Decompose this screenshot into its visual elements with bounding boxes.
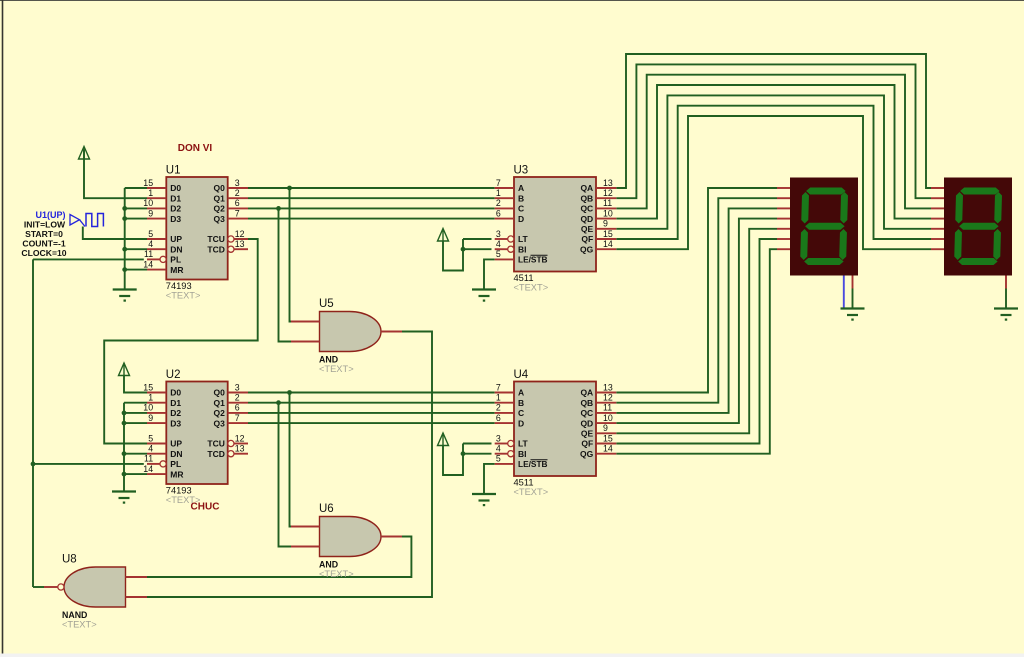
svg-text:Q1: Q1 — [214, 193, 226, 203]
power flag VCC (U1) — [79, 147, 90, 160]
svg-text:4: 4 — [496, 239, 501, 249]
svg-text:6: 6 — [496, 413, 501, 423]
svg-text:QE: QE — [581, 429, 594, 439]
svg-text:2: 2 — [235, 188, 240, 198]
U3 pin 11 (QC) — [580, 198, 616, 213]
U3 pin 3 (LT) — [495, 229, 529, 244]
junction dot U1 Q0 branch — [287, 186, 292, 191]
ground symbol under DS2 — [994, 309, 1018, 321]
svg-text:4: 4 — [148, 239, 153, 249]
U1 pin 1 (D1) — [147, 188, 181, 203]
svg-text:U2: U2 — [166, 369, 181, 381]
svg-text:3: 3 — [496, 433, 501, 443]
junction dot U1 rail at D2 — [122, 206, 127, 211]
U5 output pin stub — [381, 331, 402, 333]
svg-text:UP: UP — [170, 234, 182, 244]
U3 pin 10 (QD) — [580, 208, 616, 223]
svg-text:UP: UP — [170, 439, 182, 449]
svg-text:TCU: TCU — [207, 234, 224, 244]
svg-text:QC: QC — [580, 204, 593, 214]
svg-text:2: 2 — [496, 403, 501, 413]
wire left rail to U2 PL — [33, 463, 144, 465]
gate U6 (AND) body — [320, 517, 382, 557]
wire U3 QA to DS2 segment a — [616, 54, 931, 188]
svg-text:D: D — [518, 418, 524, 428]
wire VCC arrow to U1 D1 — [84, 150, 147, 198]
U1 pin 7 (Q3) — [214, 208, 248, 223]
U1 pin 3 (Q0) — [214, 178, 248, 193]
svg-text:14: 14 — [143, 259, 153, 269]
U2 pin 3 (Q0) — [214, 382, 248, 397]
svg-text:Q2: Q2 — [214, 408, 226, 418]
junction dot U4 BI — [461, 451, 466, 456]
window strip below paper — [0, 654, 1024, 657]
svg-text:13: 13 — [603, 178, 613, 188]
U4 pin 4 (BI) — [495, 444, 527, 459]
U4 pin 15 (QF) — [581, 433, 616, 448]
wire VCC arrow to U2 D0 — [124, 376, 147, 393]
svg-text:DON VI: DON VI — [178, 143, 213, 154]
wire clock source to U1 UP — [83, 227, 147, 240]
svg-text:5: 5 — [496, 249, 501, 259]
wire U2 Q1 to U4 B — [248, 402, 495, 404]
svg-text:Q1: Q1 — [214, 398, 226, 408]
wire DS2 ground pin — [1005, 289, 1007, 309]
IC U3 (4511) body — [514, 177, 596, 272]
wire VCC arrow to U3 BI/LT — [443, 239, 463, 271]
junction dot U1 Q2 branch — [276, 206, 281, 211]
svg-text:QF: QF — [581, 234, 593, 244]
U1 pin 10 (D2) — [143, 198, 181, 213]
wire U1 D2 to ground rail — [125, 207, 147, 209]
ground symbol under U2 — [112, 492, 136, 504]
U4 pin 10 (QD) — [580, 413, 616, 428]
svg-text:AND: AND — [319, 560, 338, 570]
svg-text:U6: U6 — [319, 503, 334, 515]
U1 pin 15 (D0) — [143, 178, 181, 193]
svg-text:DN: DN — [170, 449, 182, 459]
svg-text:D2: D2 — [170, 204, 181, 214]
svg-text:START=0: START=0 — [25, 229, 63, 239]
svg-text:Q2: Q2 — [214, 204, 226, 214]
svg-text:AND: AND — [319, 355, 338, 365]
U2 pin 4 (DN) — [147, 444, 183, 459]
wire left rail to U1 PL — [33, 258, 144, 260]
U2 pin 2 (Q1) — [214, 393, 248, 408]
U6 input pin stubs — [291, 527, 320, 547]
svg-text:11: 11 — [603, 198, 612, 208]
svg-text:12: 12 — [235, 433, 245, 443]
svg-text:<TEXT>: <TEXT> — [319, 364, 354, 374]
wire U2 D1 to ground rail — [124, 402, 147, 404]
svg-text:13: 13 — [235, 239, 245, 249]
U1 pin 5 (UP) — [147, 229, 182, 244]
svg-text:15: 15 — [603, 433, 613, 443]
U4 pin 14 (QG) — [580, 444, 616, 459]
svg-text:LT: LT — [518, 439, 529, 449]
wire U3 QB to DS2 segment b — [616, 64, 931, 198]
junction dot U2 rail at D2 — [122, 411, 127, 416]
svg-text:3: 3 — [235, 382, 240, 392]
U2 pin 5 (UP) — [147, 433, 182, 448]
wire U8 output to left rail — [33, 586, 44, 588]
svg-text:B: B — [518, 398, 524, 408]
IC U1 (74193) body — [166, 177, 227, 280]
svg-text:13: 13 — [603, 382, 613, 392]
U1 pin 12 (TCU) — [207, 229, 248, 244]
wire U1 Q2 to U3 C — [248, 207, 495, 209]
svg-text:5: 5 — [496, 454, 501, 464]
svg-text:9: 9 — [603, 219, 608, 229]
power flag VCC (U4) — [438, 433, 449, 446]
U2 pin 9 (D3) — [147, 413, 181, 428]
svg-text:<TEXT>: <TEXT> — [514, 283, 549, 293]
U4 pin 13 (QA) — [580, 382, 616, 397]
svg-text:13: 13 — [235, 444, 245, 454]
svg-text:MR: MR — [170, 469, 183, 479]
wire U4 QG to DS1 segment g — [616, 249, 777, 454]
svg-text:<TEXT>: <TEXT> — [62, 620, 97, 630]
U3 pin 7 (A) — [495, 178, 524, 193]
svg-text:QD: QD — [580, 418, 593, 428]
svg-text:5: 5 — [148, 433, 153, 443]
U2 pin 7 (Q3) — [214, 413, 248, 428]
U3 pin 5 (LE/STB) — [495, 249, 548, 264]
junction dot U3 BI — [461, 247, 466, 252]
U3 pin 4 (BI) — [495, 239, 527, 254]
wire U1 D3 to ground rail — [125, 218, 147, 220]
U4 pin 9 (QE) — [581, 423, 616, 438]
U8 input pin stubs — [126, 577, 148, 597]
U3 pin 9 (QE) — [581, 219, 616, 234]
junction dot U2 rail at DN — [122, 451, 127, 456]
DS2 segment pins a-g — [931, 188, 944, 249]
wire U3 QF to DS2 segment f — [616, 106, 931, 239]
svg-text:10: 10 — [603, 208, 613, 218]
svg-text:D: D — [518, 214, 524, 224]
svg-text:10: 10 — [143, 198, 153, 208]
svg-text:4511: 4511 — [514, 478, 534, 488]
wire U1 Q3 to U3 D — [248, 218, 495, 220]
svg-text:DN: DN — [170, 244, 182, 254]
U4 pin 7 (A) — [495, 382, 524, 397]
U3 pin 12 (QB) — [580, 188, 616, 203]
svg-text:QC: QC — [580, 408, 593, 418]
svg-text:CLOCK=10: CLOCK=10 — [21, 248, 66, 258]
U1 pin 11 (PL) — [144, 249, 181, 264]
wire U3 QG to DS2 segment g — [616, 116, 931, 249]
IC U2 (74193) body — [166, 382, 227, 485]
wire U1 TCU to U2 UP cascade — [104, 239, 258, 444]
wire U3 LE/STB to ground — [484, 259, 495, 289]
svg-text:MR: MR — [170, 265, 183, 275]
U4 pin 12 (QB) — [580, 393, 616, 408]
gate U8 (NAND) body, mirrored — [64, 567, 126, 607]
wire U3 QE to DS2 segment e — [616, 95, 931, 228]
svg-text:74193: 74193 — [166, 486, 192, 496]
U2 pin 11 (PL) — [144, 454, 181, 469]
IC U4 (4511) body — [514, 382, 596, 477]
svg-text:11: 11 — [144, 249, 153, 259]
junction dot U2 Q1 branch — [276, 400, 281, 405]
svg-text:12: 12 — [603, 188, 613, 198]
U6 output pin stub — [381, 536, 402, 538]
svg-text:TCD: TCD — [207, 449, 224, 459]
svg-text:4511: 4511 — [514, 273, 534, 283]
wire U2 DN to ground rail — [124, 453, 147, 455]
U1 pin 6 (Q2) — [214, 198, 248, 213]
wire VCC arrow to U4 BI/LT — [443, 444, 463, 476]
svg-text:CHUC: CHUC — [191, 502, 220, 513]
svg-text:BI: BI — [518, 244, 527, 254]
svg-text:6: 6 — [235, 403, 240, 413]
svg-text:QB: QB — [580, 398, 593, 408]
U1 pin 13 (TCD) — [207, 239, 248, 254]
svg-text:<TEXT>: <TEXT> — [514, 487, 549, 497]
wire U2 Q2 to U4 C — [248, 412, 495, 414]
wire U3 QD to DS2 segment d — [616, 85, 931, 219]
wire U2 Q0 to U4 A — [248, 392, 495, 394]
svg-text:B: B — [518, 193, 524, 203]
wire U1 Q0 to U3 A — [248, 187, 495, 189]
U8 output bubble — [58, 584, 64, 590]
svg-text:D3: D3 — [170, 418, 181, 428]
svg-text:U4: U4 — [514, 369, 529, 381]
wire U2 Q1 down to U6 input B — [279, 403, 292, 547]
svg-text:LE/STB: LE/STB — [518, 459, 548, 469]
U2 pin 10 (D2) — [143, 403, 181, 418]
svg-text:LT: LT — [518, 234, 529, 244]
svg-text:LE/STB: LE/STB — [518, 255, 548, 265]
U3 pin 15 (QF) — [581, 229, 616, 244]
wire DS1 ground pin — [852, 289, 854, 309]
svg-text:Q0: Q0 — [214, 183, 226, 193]
wire DS1 common pin to ground (blue) — [843, 276, 845, 309]
U1 pin 2 (Q1) — [214, 188, 248, 203]
svg-text:D1: D1 — [170, 398, 181, 408]
svg-text:9: 9 — [148, 413, 153, 423]
svg-text:1: 1 — [496, 188, 501, 198]
svg-text:14: 14 — [143, 464, 153, 474]
U4 pin 2 (C) — [495, 403, 524, 418]
U3 pin 14 (QG) — [580, 239, 616, 254]
ground symbol under U4 — [472, 494, 496, 506]
U4 pin 1 (B) — [495, 393, 524, 408]
wire U2 MR to ground rail — [124, 473, 147, 475]
svg-text:4: 4 — [496, 444, 501, 454]
junction dot U1 rail at MR — [122, 267, 127, 272]
DS1 digit segments (showing 8) — [800, 188, 848, 266]
wire U1 MR to ground rail — [125, 269, 147, 271]
DS2 bottom common pin stub — [1005, 276, 1007, 289]
clock generator symbol U1(UP) — [70, 214, 103, 227]
wire U6 output to U8 input A — [147, 537, 411, 578]
svg-text:QA: QA — [580, 388, 593, 398]
wire U2 Q0 down to U6 input A — [290, 393, 292, 527]
wire U4 QD to DS1 segment d — [616, 219, 777, 424]
svg-text:C: C — [518, 408, 524, 418]
svg-text:QA: QA — [580, 183, 593, 193]
svg-text:INIT=LOW: INIT=LOW — [24, 220, 66, 230]
U2 pin 6 (Q2) — [214, 403, 248, 418]
ground symbol under DS1 — [841, 309, 865, 321]
DS1 extra red stub row — [0, 0, 1, 1]
U3 pin 2 (C) — [495, 198, 524, 213]
wire U1 Q0 down to U5 input A — [290, 188, 292, 322]
U2 pin 15 (D0) — [143, 382, 181, 397]
svg-text:10: 10 — [603, 413, 613, 423]
wire U2 ground rail vertical — [123, 403, 125, 492]
wire U8 output left rail vertical — [32, 259, 34, 587]
svg-text:C: C — [518, 204, 524, 214]
U8 output pin stub — [44, 586, 58, 588]
junction dot U1 rail at DN — [122, 247, 127, 252]
wire U4 QB to DS1 segment b — [616, 198, 777, 403]
wire U4 QA to DS1 segment a — [616, 188, 777, 393]
svg-text:4: 4 — [148, 444, 153, 454]
U3 pin 13 (QA) — [580, 178, 616, 193]
wire U1 Q1 to U3 B — [248, 197, 495, 199]
wire U4 QE to DS1 segment e — [616, 229, 777, 433]
svg-text:7: 7 — [496, 382, 501, 392]
svg-text:7: 7 — [235, 413, 240, 423]
DS1 segment pins a-g — [777, 188, 790, 249]
svg-text:QB: QB — [580, 193, 593, 203]
svg-text:7: 7 — [235, 208, 240, 218]
svg-text:1: 1 — [148, 188, 153, 198]
U2 pin 1 (D1) — [147, 393, 181, 408]
svg-text:12: 12 — [603, 393, 613, 403]
svg-text:3: 3 — [235, 178, 240, 188]
7-segment display DS2 body — [944, 178, 1012, 276]
wire U5 output to U8 input B — [147, 332, 432, 598]
junction dot U2 rail at D3 — [122, 421, 127, 426]
wire U3 BI branch — [463, 248, 492, 250]
wire U4 QF to DS1 segment f — [616, 239, 777, 444]
svg-text:Q3: Q3 — [214, 214, 226, 224]
DS1 bottom common pin stub — [852, 276, 854, 289]
svg-text:D3: D3 — [170, 214, 181, 224]
svg-text:U1: U1 — [166, 165, 181, 177]
svg-text:9: 9 — [148, 208, 153, 218]
svg-text:7: 7 — [496, 178, 501, 188]
svg-text:A: A — [518, 183, 524, 193]
DS2 pin a stub red portion — [931, 187, 944, 189]
U5 input pin stubs — [291, 322, 320, 342]
svg-text:14: 14 — [603, 444, 613, 454]
wire U1 Q2 down to U5 input B — [279, 208, 292, 341]
svg-text:3: 3 — [496, 229, 501, 239]
DS2 digit segments (showing 8) — [954, 188, 1002, 266]
svg-text:Q3: Q3 — [214, 418, 226, 428]
svg-text:12: 12 — [235, 229, 245, 239]
U2 pin 14 (MR) — [143, 464, 183, 479]
svg-text:74193: 74193 — [166, 281, 192, 291]
svg-text:PL: PL — [170, 459, 181, 469]
svg-text:6: 6 — [235, 198, 240, 208]
U4 pin 6 (D) — [495, 413, 524, 428]
svg-text:PL: PL — [170, 255, 181, 265]
svg-text:U1(UP): U1(UP) — [35, 210, 65, 220]
svg-text:TCU: TCU — [207, 439, 224, 449]
svg-text:11: 11 — [144, 454, 153, 464]
U3 pin 6 (D) — [495, 208, 524, 223]
svg-text:QF: QF — [581, 439, 593, 449]
svg-text:U8: U8 — [62, 554, 77, 566]
junction dot U1 rail at D3 — [122, 216, 127, 221]
gate U5 (AND) body — [320, 312, 382, 352]
wire U2 D3 to ground rail — [124, 422, 147, 424]
U4 pin 11 (QC) — [580, 403, 616, 418]
U1 pin 4 (DN) — [147, 239, 183, 254]
svg-text:BI: BI — [518, 449, 527, 459]
svg-text:D0: D0 — [170, 388, 181, 398]
wire U4 QC to DS1 segment c — [616, 208, 777, 413]
power flag VCC (U3) — [438, 229, 449, 242]
svg-text:11: 11 — [603, 403, 612, 413]
svg-text:2: 2 — [235, 393, 240, 403]
svg-text:QE: QE — [581, 224, 594, 234]
svg-text:COUNT=-1: COUNT=-1 — [22, 239, 65, 249]
wire U4 LE/STB to ground — [484, 464, 495, 494]
U2 pin 13 (TCD) — [207, 444, 248, 459]
svg-text:15: 15 — [143, 178, 153, 188]
wire U4 BI branch — [463, 453, 492, 455]
svg-text:15: 15 — [603, 229, 613, 239]
wire U2 Q3 to U4 D — [248, 422, 495, 424]
svg-text:9: 9 — [603, 423, 608, 433]
paper left border line — [2, 0, 4, 654]
svg-text:NAND: NAND — [62, 610, 87, 620]
svg-text:15: 15 — [143, 382, 153, 392]
svg-text:<TEXT>: <TEXT> — [319, 569, 354, 579]
power flag VCC (U2) — [119, 363, 130, 376]
wire U2 D2 to ground rail — [124, 412, 147, 414]
wire U1 ground rail vertical — [124, 188, 126, 289]
junction dot U2 Q0 branch — [287, 390, 292, 395]
U2 pin 12 (TCU) — [207, 433, 248, 448]
wire U1 DN to ground rail — [125, 248, 147, 250]
svg-text:2: 2 — [496, 198, 501, 208]
wire U1 D0 to ground rail — [125, 187, 147, 189]
svg-text:Q0: Q0 — [214, 388, 226, 398]
U1 pin 9 (D3) — [147, 208, 181, 223]
svg-text:A: A — [518, 388, 524, 398]
U3 pin 1 (B) — [495, 188, 524, 203]
svg-text:<TEXT>: <TEXT> — [166, 291, 201, 301]
wire U3 QC to DS2 segment c — [616, 75, 931, 209]
svg-text:QD: QD — [580, 214, 593, 224]
paper top border hairline — [0, 0, 1024, 2]
U1 pin 14 (MR) — [143, 259, 183, 274]
svg-text:D1: D1 — [170, 193, 181, 203]
U4 pin 5 (LE/STB) — [495, 454, 548, 469]
svg-text:U3: U3 — [514, 165, 529, 177]
svg-text:10: 10 — [143, 403, 153, 413]
U4 pin 3 (LT) — [495, 433, 529, 448]
svg-text:D2: D2 — [170, 408, 181, 418]
svg-text:6: 6 — [496, 208, 501, 218]
svg-text:QG: QG — [580, 244, 594, 254]
junction dot left rail at U2 PL — [31, 462, 36, 467]
svg-text:QG: QG — [580, 449, 594, 459]
svg-text:TCD: TCD — [207, 244, 224, 254]
ground symbol under U3 — [472, 290, 496, 302]
wire U3 LT branch — [463, 238, 492, 240]
svg-text:1: 1 — [148, 393, 153, 403]
wire U4 LT branch — [463, 443, 492, 445]
svg-text:5: 5 — [148, 229, 153, 239]
